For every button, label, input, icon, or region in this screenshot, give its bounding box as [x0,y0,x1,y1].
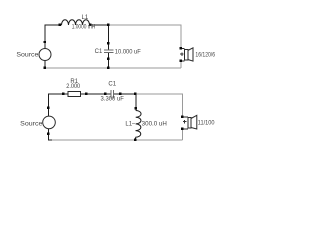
svg-text:Source: Source [16,52,39,58]
svg-text:Source: Source [20,122,43,128]
svg-text:3.300 uF: 3.300 uF [101,96,125,102]
svg-text:C1: C1 [108,82,116,88]
svg-text:2.000: 2.000 [66,84,81,90]
svg-text:16/120/6: 16/120/6 [195,53,215,59]
svg-text:L1: L1 [125,121,132,127]
svg-text:C1: C1 [95,49,103,55]
svg-text:300.0 uH: 300.0 uH [142,121,167,127]
svg-text:1.0000 mH: 1.0000 mH [72,24,96,30]
svg-text:L1: L1 [82,15,89,21]
svg-text:11/100: 11/100 [198,120,215,126]
svg-text:10.000 uF: 10.000 uF [115,50,141,56]
